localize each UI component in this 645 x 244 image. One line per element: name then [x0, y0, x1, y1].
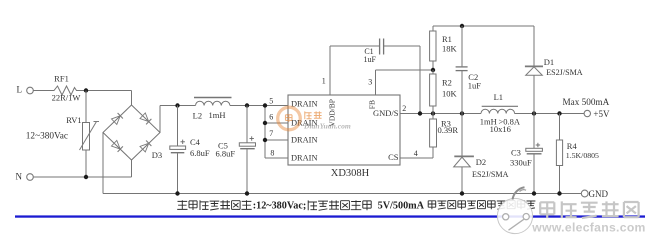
svg-text:Max 500mA: Max 500mA	[563, 97, 610, 107]
svg-text:C3: C3	[511, 147, 521, 157]
svg-text:CS: CS	[388, 152, 399, 162]
svg-text::12~380Vac;: :12~380Vac;	[253, 200, 307, 211]
wire N to bridge bottom	[33, 176, 131, 178]
node D1 bottom	[532, 111, 536, 115]
inductor L1	[482, 105, 518, 107]
node R4 top	[557, 111, 561, 115]
node GND terminal	[581, 190, 588, 197]
node R4 bottom	[557, 191, 561, 195]
resistor R1 18K	[432, 26, 434, 31]
wire DC minus down	[102, 133, 104, 194]
svg-text:8: 8	[270, 149, 274, 158]
wire bottom rail	[103, 193, 581, 195]
svg-text:RF1: RF1	[54, 74, 69, 84]
svg-text:6.8uF: 6.8uF	[216, 149, 236, 159]
svg-text:N: N	[16, 171, 23, 181]
bridge diode bottom-right	[140, 143, 149, 152]
svg-text:5V/500mA: 5V/500mA	[378, 200, 425, 211]
blue underline	[15, 215, 645, 217]
wire CS pin 4	[400, 157, 433, 159]
svg-text:www.elecfans.com: www.elecfans.com	[531, 221, 645, 235]
node FB junction	[431, 68, 435, 72]
svg-text:1uF: 1uF	[468, 80, 482, 90]
svg-text:0.39R: 0.39R	[438, 125, 459, 135]
svg-text:2: 2	[402, 104, 406, 113]
pin 3 wire FB	[375, 70, 377, 95]
svg-text:R4: R4	[567, 141, 578, 151]
watermark elecfans chars	[537, 201, 556, 215]
resistor R4 1.5K/0805	[559, 114, 561, 141]
node C1 return	[418, 111, 422, 115]
pin 1 wire VDD/BP	[329, 46, 331, 95]
svg-text:7: 7	[269, 129, 273, 138]
resistor R2 10K	[432, 70, 434, 74]
bridge diode top-left	[112, 116, 121, 125]
capacitor C4 6.8uF	[177, 106, 179, 147]
node C5 top	[245, 103, 249, 107]
node C2/D2/L1	[460, 111, 464, 115]
svg-text:D2: D2	[476, 157, 486, 167]
svg-text:12~380Vac: 12~380Vac	[26, 131, 68, 141]
capacitor C3 330uF	[533, 114, 535, 149]
svg-text:1uF: 1uF	[363, 55, 376, 64]
svg-text:XD308H: XD308H	[331, 168, 370, 179]
resistor R3 0.39R	[432, 114, 434, 120]
diode D2 ES2J/SMA	[461, 114, 463, 157]
svg-text:1mH: 1mH	[209, 110, 226, 120]
resistor RF1 22R/1W	[51, 86, 78, 95]
svg-text:22R/1W: 22R/1W	[52, 93, 81, 103]
capacitor C2 1uF	[461, 26, 463, 66]
svg-text:6.8uF: 6.8uF	[190, 148, 210, 158]
caption line	[177, 200, 187, 209]
node D2 bottom	[460, 191, 464, 195]
wire GND/S switch node	[400, 113, 481, 115]
node pin5	[263, 103, 267, 107]
node junction L/RV1	[84, 88, 88, 92]
diode D1 ES2J/SMA	[533, 26, 535, 66]
svg-text:1.5K/0805: 1.5K/0805	[566, 151, 599, 160]
svg-text:+5V: +5V	[593, 109, 610, 119]
wire top rail	[433, 25, 534, 27]
svg-text:ES2J/SMA: ES2J/SMA	[472, 170, 509, 179]
inductor L2 1mH	[194, 97, 232, 99]
svg-text:DRAIN: DRAIN	[291, 153, 318, 162]
svg-text:330uF: 330uF	[510, 158, 532, 168]
capacitor C1 1uF	[330, 45, 379, 47]
wire drain bus	[264, 106, 266, 159]
svg-text:1: 1	[322, 77, 326, 86]
svg-text:R1: R1	[442, 34, 452, 44]
svg-text:D3: D3	[152, 150, 162, 160]
node junction N/RV1	[84, 175, 88, 179]
svg-text:GND: GND	[589, 189, 609, 199]
node R3 top	[431, 111, 435, 115]
node +5V terminal	[584, 110, 590, 116]
watermark elecfans logo	[497, 198, 532, 233]
watermark dianyuan chars	[305, 111, 312, 119]
svg-text:D1: D1	[544, 57, 554, 67]
svg-text:DianYuan.com: DianYuan.com	[303, 121, 351, 130]
svg-text:ES2J/SMA: ES2J/SMA	[546, 68, 583, 77]
svg-text:10x16: 10x16	[490, 124, 511, 134]
wire RF1 to bridge top	[78, 90, 132, 92]
varistor RV1	[85, 91, 87, 123]
svg-text:DRAIN: DRAIN	[291, 135, 318, 144]
svg-text:18K: 18K	[442, 44, 458, 54]
node C2 top	[460, 24, 464, 28]
node C3 bottom	[532, 191, 536, 195]
svg-text:4: 4	[414, 149, 418, 158]
svg-text:5: 5	[269, 96, 273, 105]
svg-text:C4: C4	[190, 137, 201, 147]
node pin7	[263, 138, 267, 142]
node C5 bottom	[245, 191, 249, 195]
svg-text:3: 3	[368, 77, 372, 86]
svg-text:L2: L2	[193, 111, 202, 121]
svg-text:10K: 10K	[442, 88, 458, 98]
svg-text:6: 6	[269, 113, 273, 122]
op IC U1 XD308H box	[288, 95, 400, 165]
svg-text:RV1: RV1	[66, 115, 81, 125]
node C4 top	[175, 103, 179, 107]
svg-text:R2: R2	[442, 77, 452, 87]
wire L to RF1	[33, 90, 51, 92]
wire L2 to drain bus	[230, 105, 265, 107]
bridge rectifier D3	[103, 105, 160, 160]
node C4 bottom	[175, 191, 179, 195]
svg-text:GND/S: GND/S	[373, 108, 399, 118]
svg-text:L1: L1	[494, 92, 503, 102]
bridge diode top-right	[140, 113, 149, 122]
watermark dianyuan ring	[278, 107, 301, 130]
svg-text:L: L	[17, 85, 23, 95]
wire DC plus up to top rail	[159, 106, 161, 133]
node pin6	[263, 121, 267, 125]
wire L1 to +5V	[515, 113, 585, 115]
capacitor C5 6.8uF	[246, 106, 248, 143]
bridge diode bottom-left	[112, 141, 121, 150]
